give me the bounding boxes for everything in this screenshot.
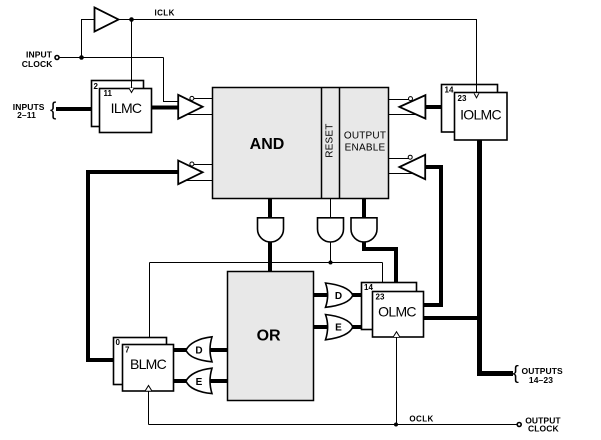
gate G1 (AND product gate, down) [258, 218, 284, 242]
wire: BLMC E input from gate EL [174, 379, 189, 383]
svg-text:23: 23 [376, 293, 385, 302]
arrow: clock into BLMC [145, 386, 152, 391]
wire: AND to right buffer B4 top row [389, 158, 413, 160]
arrow: ICLK into IOLMC [474, 93, 479, 98]
wire: gate ER output to OLMC [351, 325, 362, 329]
wire: OLMC output to IOLMC bus [424, 316, 480, 320]
node: OCLK junction [394, 423, 398, 427]
wire: IOLMC output to buffer B3 [423, 105, 442, 109]
wire: ILMC output to buffer B1 [152, 106, 181, 110]
buffer B1 (ILMC input buffer) [178, 95, 202, 119]
wire: AND block reset column to gate G2 [330, 199, 332, 219]
gate DL (BLMC D gate, points left) [186, 337, 212, 362]
wire: OR to gate ER [314, 325, 329, 329]
buffer B4 (OLMC feedback buffer) [399, 155, 425, 179]
svg-text:11: 11 [104, 89, 113, 98]
wire: AND block OE column to gate G3 [362, 199, 366, 219]
svg-text:OCLK: OCLK [409, 414, 433, 423]
svg-text:OUTPUT: OUTPUT [344, 131, 386, 142]
wire: gate DR output to OLMC [351, 293, 362, 297]
wire: OR to gate DL [202, 348, 228, 352]
svg-text:CLOCK: CLOCK [22, 59, 53, 69]
wire: left feedback bus from BLMC up to buffer B2 [88, 172, 180, 360]
svg-text:E: E [196, 377, 203, 388]
ILMC block [92, 81, 152, 133]
OR array block [228, 272, 314, 401]
AND array block [213, 88, 389, 199]
OLMC block [362, 283, 424, 338]
gate G2 (reset product gate, down) [318, 218, 344, 242]
node: input clock junction [79, 55, 84, 60]
svg-text:D: D [195, 346, 202, 357]
wire: buffer B2 true output to AND [190, 164, 213, 166]
wire: reset line horizontal [150, 262, 383, 264]
BLMC block [114, 338, 174, 392]
wire: OCLK horizontal line [149, 424, 518, 426]
wire: BLMC clock line down to OCLK [148, 390, 150, 425]
gate DR (OLMC D gate, points right) [326, 283, 353, 307]
svg-text:ICLK: ICLK [155, 9, 175, 18]
wire: AND to right buffer B3 bottom row [389, 114, 420, 116]
IOLMC block [442, 85, 508, 141]
svg-text:2: 2 [94, 82, 99, 91]
svg-text:D: D [335, 291, 342, 302]
wire: input clock horizontal [59, 57, 164, 59]
svg-text:CLOCK: CLOCK [528, 424, 559, 434]
arrow: clock into OLMC [393, 332, 400, 337]
svg-text:0: 0 [116, 338, 121, 347]
wire: gate G1 output into OR [268, 241, 272, 272]
svg-text:OLMC: OLMC [378, 303, 416, 319]
svg-text:23: 23 [458, 94, 467, 103]
svg-text:BLMC: BLMC [130, 356, 167, 372]
svg-text:RESET: RESET [325, 123, 336, 157]
terminal: input clock open circle [55, 56, 59, 60]
svg-text:14: 14 [364, 283, 373, 292]
wire: OR to gate EL [202, 379, 228, 383]
wire: OLMC clock line down to OCLK [396, 336, 398, 425]
wire: buffer B1 comp output to AND [184, 114, 213, 116]
wire: AND to right buffer B3 top row [389, 99, 413, 101]
wire: IOLMC bus down to OUTPUTS [477, 140, 513, 374]
buffer ICLK (input clock buffer) [95, 8, 119, 32]
svg-text:2–11: 2–11 [17, 110, 36, 120]
buffer B2 (feedback input buffer) [178, 161, 202, 185]
wire: input clock route to buffer B2 [164, 58, 183, 102]
node: reset line junction [329, 261, 333, 265]
wire: ICLK branch down into ILMC [131, 20, 133, 92]
svg-text:ILMC: ILMC [111, 100, 142, 116]
wire: input clock riser to ICLK buffer [82, 20, 95, 58]
wire: buffer B1 true output to AND [190, 98, 213, 100]
terminal: output clock open circle [517, 423, 521, 427]
svg-text:{: { [513, 363, 520, 384]
gate G3 (output enable product gate, down) [351, 218, 377, 242]
svg-text:ENABLE: ENABLE [345, 142, 386, 153]
node: ICLK junction [129, 17, 134, 22]
wire: ICLK buffer output across top [119, 20, 477, 92]
gate ER (OLMC E gate, points right) [326, 315, 353, 340]
wire: OR to gate DR [314, 293, 329, 297]
gate EL (BLMC E gate, points left) [186, 368, 212, 393]
wire: OLMC feedback up to buffer B4 [423, 167, 441, 305]
wire: AND block to gate G1 [268, 199, 272, 219]
wire: AND to right buffer B4 bottom row [389, 173, 420, 175]
svg-text:E: E [335, 323, 342, 334]
svg-text:7: 7 [125, 346, 130, 355]
wire: gate G3 output elbow to OLMC [364, 241, 396, 284]
wire: buffer B2 comp output to AND [184, 180, 213, 182]
svg-text:14–23: 14–23 [529, 375, 553, 385]
wire: BLMC D input from gate DL [174, 348, 189, 352]
wire: INPUTS bus into ILMC [56, 107, 92, 111]
svg-text:{: { [50, 99, 57, 120]
wire: reset line right branch down into OLMC [382, 263, 384, 284]
wire: ICLK segment over ILMC back box [131, 80, 133, 91]
wire: ICLK segment over IOLMC back box [476, 84, 478, 92]
wire: reset product term down from gate G2 [330, 241, 332, 263]
arrow: ICLK into ILMC [129, 88, 134, 93]
wire: reset line left branch down into BLMC [149, 263, 151, 339]
svg-text:14: 14 [445, 86, 454, 95]
buffer B3 (IOLMC feedback buffer) [399, 95, 425, 118]
svg-text:IOLMC: IOLMC [460, 107, 501, 123]
svg-text:OR: OR [257, 327, 281, 344]
svg-text:AND: AND [250, 136, 285, 153]
